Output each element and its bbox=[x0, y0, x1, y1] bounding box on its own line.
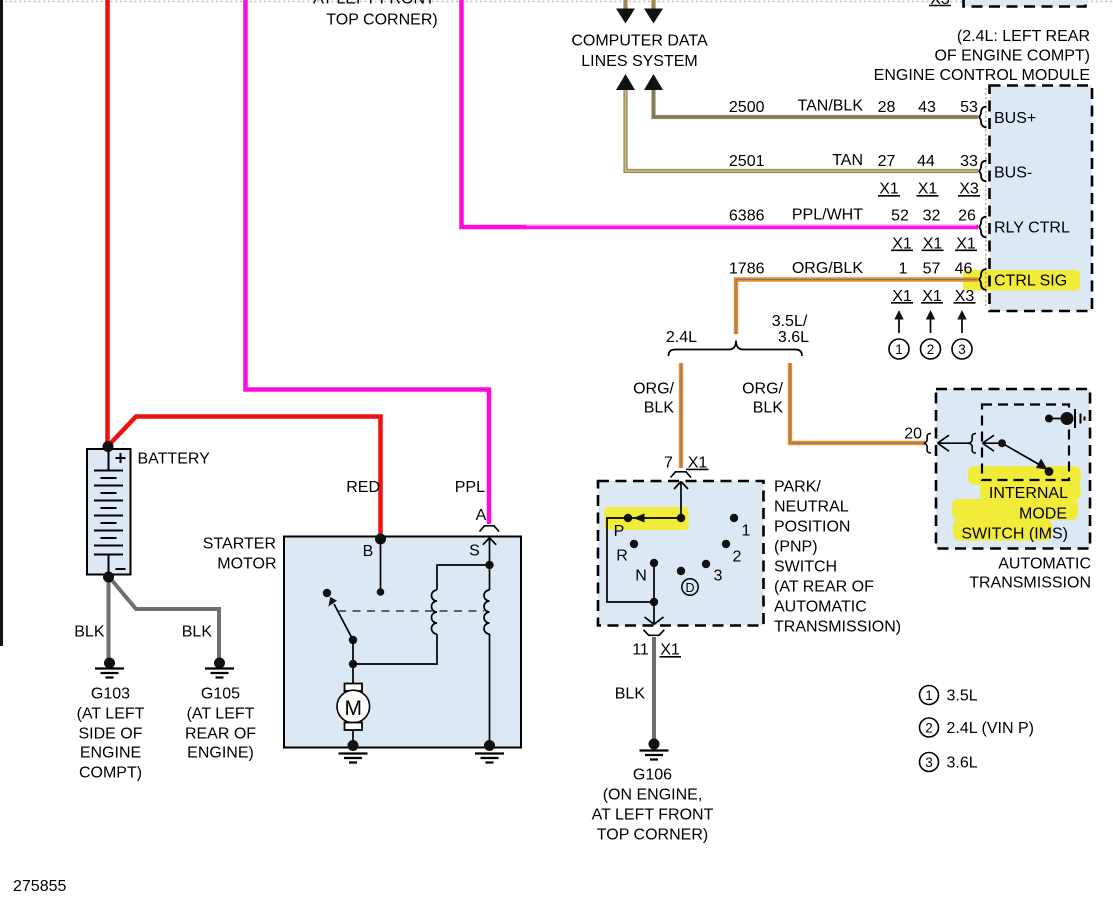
brace split 2.4L / 3.5L bbox=[669, 341, 803, 357]
battery top junction dot bbox=[103, 441, 114, 452]
svg-text:BLK: BLK bbox=[182, 624, 213, 641]
svg-text:G105: G105 bbox=[201, 686, 240, 703]
svg-text:D: D bbox=[685, 581, 694, 595]
wire gray battery to G105 bbox=[110, 578, 219, 661]
svg-text:X1: X1 bbox=[892, 236, 912, 253]
svg-text:1: 1 bbox=[742, 523, 751, 540]
svg-text:X3: X3 bbox=[955, 288, 975, 305]
wire tan stub top right bbox=[651, 0, 655, 10]
left page border line bbox=[0, 0, 3, 646]
svg-text:ORG/BLK: ORG/BLK bbox=[792, 260, 863, 277]
circled 3 bbox=[952, 339, 972, 359]
svg-text:2501: 2501 bbox=[729, 153, 765, 170]
wire gray battery to G103 bbox=[107, 577, 111, 661]
svg-text:X3: X3 bbox=[930, 0, 950, 8]
highlight CTRL SIG bbox=[963, 270, 1080, 291]
starter B terminal dot bbox=[375, 534, 386, 545]
svg-text:X1: X1 bbox=[688, 455, 708, 472]
IMS outer dashed border bbox=[936, 389, 1090, 549]
wire red vertical from top bbox=[105, 0, 110, 445]
IMS switch common dot bbox=[998, 439, 1006, 447]
starter B internal lead bbox=[380, 539, 382, 592]
svg-text:46: 46 bbox=[955, 261, 973, 278]
X1 underlines row B bbox=[891, 249, 977, 251]
top-right partial dashed box bbox=[964, 0, 1086, 7]
svg-text:P: P bbox=[614, 523, 625, 540]
PNP selector arrow up bbox=[674, 482, 688, 519]
battery plus sign bbox=[116, 453, 126, 463]
svg-text:2: 2 bbox=[927, 342, 935, 357]
svg-text:X3: X3 bbox=[959, 181, 979, 198]
ECM pin connector RLY CTRL bbox=[978, 217, 986, 238]
svg-text:3: 3 bbox=[958, 342, 966, 357]
svg-text:BLK: BLK bbox=[753, 400, 784, 417]
svg-text:X1: X1 bbox=[660, 642, 680, 659]
svg-text:CTRL SIG: CTRL SIG bbox=[994, 273, 1067, 290]
wire tan stub top left bbox=[623, 0, 627, 10]
battery minus sign bbox=[116, 568, 126, 570]
svg-text:X1: X1 bbox=[956, 236, 976, 253]
svg-text:20: 20 bbox=[904, 426, 922, 443]
svg-text:BLK: BLK bbox=[615, 686, 646, 703]
svg-text:275855: 275855 bbox=[13, 878, 66, 895]
svg-text:32: 32 bbox=[923, 208, 941, 225]
wire red battery to starter B bbox=[108, 417, 381, 539]
svg-text:7: 7 bbox=[664, 455, 673, 472]
svg-text:3.5L: 3.5L bbox=[947, 688, 978, 705]
battery plates bbox=[94, 449, 123, 575]
svg-text:MOTOR: MOTOR bbox=[217, 556, 276, 573]
svg-text:TRANSMISSION: TRANSMISSION bbox=[969, 575, 1091, 592]
PNP switch box fill bbox=[598, 481, 764, 626]
svg-text:2: 2 bbox=[925, 721, 933, 736]
ground G105 bbox=[214, 658, 225, 669]
svg-text:PPL/WHT: PPL/WHT bbox=[792, 207, 863, 224]
connector A arc bbox=[480, 526, 500, 532]
wire orange 2.4L branch bbox=[679, 363, 683, 468]
svg-text:X1: X1 bbox=[922, 288, 942, 305]
svg-text:TOP CORNER): TOP CORNER) bbox=[326, 12, 437, 29]
connector 7 X1 arc bbox=[671, 472, 692, 478]
svg-text:S: S bbox=[469, 543, 480, 560]
IMS inner dashed border bbox=[982, 405, 1069, 481]
svg-text:BATTERY: BATTERY bbox=[138, 451, 211, 468]
highlight IMS scribble bbox=[968, 466, 1081, 485]
wire orange CTRL SIG 1786 bbox=[736, 280, 978, 335]
svg-text:2500: 2500 bbox=[729, 99, 765, 116]
svg-text:TOP CORNER): TOP CORNER) bbox=[597, 827, 708, 844]
svg-text:6386: 6386 bbox=[729, 208, 765, 225]
battery box fill bbox=[87, 449, 131, 575]
svg-text:STARTER: STARTER bbox=[203, 536, 276, 553]
connector 11 X1 arc bbox=[644, 630, 665, 636]
starter motor box border bbox=[284, 537, 521, 748]
svg-text:(PNP): (PNP) bbox=[774, 539, 818, 556]
X1 underlines row A bbox=[878, 195, 980, 197]
svg-text:44: 44 bbox=[917, 153, 935, 170]
wire orange 3.5L/3.6L branch to IMS pin 20 bbox=[790, 363, 925, 443]
svg-text:26: 26 bbox=[958, 208, 976, 225]
PNP arm arrowhead to P bbox=[633, 514, 645, 523]
ECM box dashed border U1 bbox=[990, 86, 1093, 312]
svg-text:52: 52 bbox=[891, 208, 909, 225]
top-right partial box fill bbox=[964, 0, 1086, 7]
battery bottom junction dot bbox=[103, 572, 114, 583]
svg-text:2.4L (VIN P): 2.4L (VIN P) bbox=[947, 720, 1034, 737]
svg-text:X1: X1 bbox=[918, 181, 938, 198]
ECM pin connector CTRL SIG bbox=[978, 269, 986, 290]
wire junction to hold-in coil bbox=[353, 634, 437, 664]
svg-text:COMPT): COMPT) bbox=[79, 765, 142, 782]
svg-text:1: 1 bbox=[899, 261, 908, 278]
svg-text:BLK: BLK bbox=[74, 624, 105, 641]
svg-text:(AT REAR OF: (AT REAR OF bbox=[774, 579, 874, 596]
svg-text:(AT LEFT: (AT LEFT bbox=[77, 706, 145, 723]
S terminal arrow bbox=[483, 538, 496, 565]
svg-text:RED: RED bbox=[346, 479, 380, 496]
svg-text:2.4L: 2.4L bbox=[666, 329, 697, 346]
PNP contacts dots bbox=[677, 514, 685, 522]
svg-text:SWITCH: SWITCH bbox=[774, 559, 837, 576]
arrows to circled 1 2 3 bbox=[899, 317, 962, 333]
svg-text:ENGINE CONTROL MODULE: ENGINE CONTROL MODULE bbox=[874, 67, 1090, 84]
IMS connector female half outer bbox=[924, 434, 931, 454]
svg-text:LINES SYSTEM: LINES SYSTEM bbox=[581, 53, 697, 70]
svg-text:TAN/BLK: TAN/BLK bbox=[798, 98, 864, 115]
legend circled 2 bbox=[920, 718, 939, 737]
svg-text:BUS-: BUS- bbox=[994, 165, 1032, 182]
starter ground left bbox=[348, 740, 359, 751]
ECM box fill bbox=[990, 86, 1093, 312]
svg-text:REAR OF: REAR OF bbox=[185, 726, 256, 743]
hold-in coil top lead bbox=[437, 565, 490, 590]
svg-text:AT LEFT FRONT: AT LEFT FRONT bbox=[592, 807, 714, 824]
svg-text:G106: G106 bbox=[633, 767, 672, 784]
svg-text:A: A bbox=[476, 507, 487, 524]
7 X1 underline bbox=[686, 468, 709, 470]
ECM connector face dotted line bbox=[985, 88, 987, 309]
svg-text:G103: G103 bbox=[91, 686, 130, 703]
svg-text:OF ENGINE COMPT): OF ENGINE COMPT) bbox=[934, 48, 1090, 65]
PNP N lead bbox=[653, 563, 655, 602]
svg-text:SWITCH (IMS): SWITCH (IMS) bbox=[961, 526, 1068, 543]
svg-text:RLY CTRL: RLY CTRL bbox=[994, 220, 1070, 237]
svg-text:57: 57 bbox=[923, 261, 941, 278]
circled 2 bbox=[921, 339, 941, 359]
wire magenta PPL from top to starter A bbox=[246, 0, 490, 524]
circled 1 bbox=[889, 339, 909, 359]
svg-text:COMPUTER DATA: COMPUTER DATA bbox=[571, 33, 708, 50]
IMS connector female half inner bbox=[969, 434, 976, 454]
ECM pin connector BUS- bbox=[978, 161, 986, 182]
X3 underline top right bbox=[929, 5, 951, 7]
IMS case contact bbox=[1045, 415, 1053, 423]
svg-text:1786: 1786 bbox=[729, 261, 765, 278]
svg-text:(AT LEFT: (AT LEFT bbox=[187, 706, 255, 723]
starter switch to motor junction bbox=[352, 640, 354, 664]
svg-text:NEUTRAL: NEUTRAL bbox=[774, 499, 849, 516]
wire tan BUS- 2501 bbox=[626, 88, 979, 171]
starter ground right bbox=[484, 740, 495, 751]
highlight PNP P-row bbox=[605, 507, 689, 530]
PNP switch dashed border bbox=[598, 481, 764, 626]
svg-text:ENGINE): ENGINE) bbox=[187, 745, 254, 762]
IMS switch arm diagonal bbox=[1002, 443, 1040, 465]
svg-text:(ON ENGINE,: (ON ENGINE, bbox=[603, 787, 703, 804]
starter motor box fill bbox=[284, 537, 521, 748]
pull-in coil L2 bbox=[484, 590, 490, 634]
svg-text:TRANSMISSION): TRANSMISSION) bbox=[774, 619, 901, 636]
mechanical link dashed bbox=[338, 610, 484, 612]
wire gray PNP to G106 bbox=[652, 637, 656, 741]
wire tan BUS+ 2500 bbox=[654, 88, 979, 117]
svg-text:3.6L: 3.6L bbox=[947, 755, 978, 772]
svg-text:X1: X1 bbox=[879, 181, 899, 198]
svg-text:33: 33 bbox=[960, 153, 978, 170]
PNP bottom arrow down bbox=[645, 602, 664, 624]
svg-text:PPL: PPL bbox=[455, 479, 485, 496]
legend circled 1 bbox=[920, 686, 939, 705]
svg-text:43: 43 bbox=[918, 99, 936, 116]
svg-text:11: 11 bbox=[632, 642, 649, 659]
battery box border bbox=[87, 449, 131, 575]
svg-text:POSITION: POSITION bbox=[774, 519, 850, 536]
X1 underlines row C bbox=[891, 302, 976, 304]
S node dot bbox=[485, 561, 493, 569]
ground G103 bbox=[104, 658, 115, 669]
svg-text:2: 2 bbox=[733, 549, 742, 566]
svg-text:MODE: MODE bbox=[1019, 506, 1067, 523]
svg-text:N: N bbox=[635, 568, 647, 585]
svg-text:27: 27 bbox=[878, 153, 896, 170]
svg-text:ENGINE: ENGINE bbox=[80, 745, 141, 762]
starter switch arm Q bbox=[334, 604, 353, 640]
svg-text:(2.4L: LEFT REAR: (2.4L: LEFT REAR bbox=[957, 28, 1090, 45]
svg-text:AUTOMATIC: AUTOMATIC bbox=[774, 599, 867, 616]
svg-text:3.6L: 3.6L bbox=[778, 329, 809, 346]
svg-text:PARK/: PARK/ bbox=[774, 479, 821, 496]
IMS automatic transmission box fill bbox=[936, 389, 1090, 549]
hold-in coil L1 bbox=[432, 590, 438, 634]
svg-text:AT LEFT FRONT: AT LEFT FRONT bbox=[313, 0, 435, 8]
starter switch contact dot bbox=[323, 589, 331, 597]
svg-text:X1: X1 bbox=[923, 236, 943, 253]
svg-text:3: 3 bbox=[925, 755, 933, 770]
svg-text:R: R bbox=[616, 548, 628, 565]
svg-text:BUS+: BUS+ bbox=[994, 110, 1036, 127]
svg-text:M: M bbox=[345, 697, 363, 720]
legend circled 3 bbox=[920, 753, 939, 772]
svg-text:1: 1 bbox=[895, 342, 903, 357]
computer data lines up arrows bbox=[616, 74, 663, 90]
ECM pin connector BUS+ bbox=[978, 107, 986, 128]
svg-text:B: B bbox=[363, 543, 374, 560]
computer data lines down arrows bbox=[616, 9, 663, 24]
svg-text:ORG/: ORG/ bbox=[633, 381, 674, 398]
svg-text:3.5L/: 3.5L/ bbox=[772, 313, 808, 330]
svg-text:INTERNAL: INTERNAL bbox=[989, 485, 1068, 502]
svg-text:3: 3 bbox=[714, 568, 723, 585]
svg-text:SIDE OF: SIDE OF bbox=[78, 726, 142, 743]
IMS male arrow inner bbox=[983, 435, 1003, 451]
svg-text:53: 53 bbox=[960, 99, 978, 116]
svg-text:AUTOMATIC: AUTOMATIC bbox=[998, 556, 1091, 573]
svg-text:28: 28 bbox=[878, 99, 896, 116]
ground G106 bbox=[649, 739, 660, 750]
wire magenta PPL/WHT RLY CTRL bbox=[462, 0, 979, 227]
PNP D position circle bbox=[682, 579, 698, 595]
IMS male arrow outer bbox=[938, 435, 972, 451]
svg-text:TAN: TAN bbox=[832, 152, 863, 169]
PNP P-row line and left loop bbox=[607, 518, 681, 602]
svg-text:BLK: BLK bbox=[644, 400, 675, 417]
page-separator dotted line bbox=[0, 1, 963, 3]
motor M armature bbox=[352, 664, 354, 684]
svg-text:1: 1 bbox=[925, 688, 933, 703]
pull-in coil leads bbox=[489, 565, 491, 745]
svg-text:X1: X1 bbox=[892, 288, 912, 305]
svg-text:ORG/: ORG/ bbox=[742, 381, 783, 398]
11 X1 underline bbox=[660, 656, 682, 658]
